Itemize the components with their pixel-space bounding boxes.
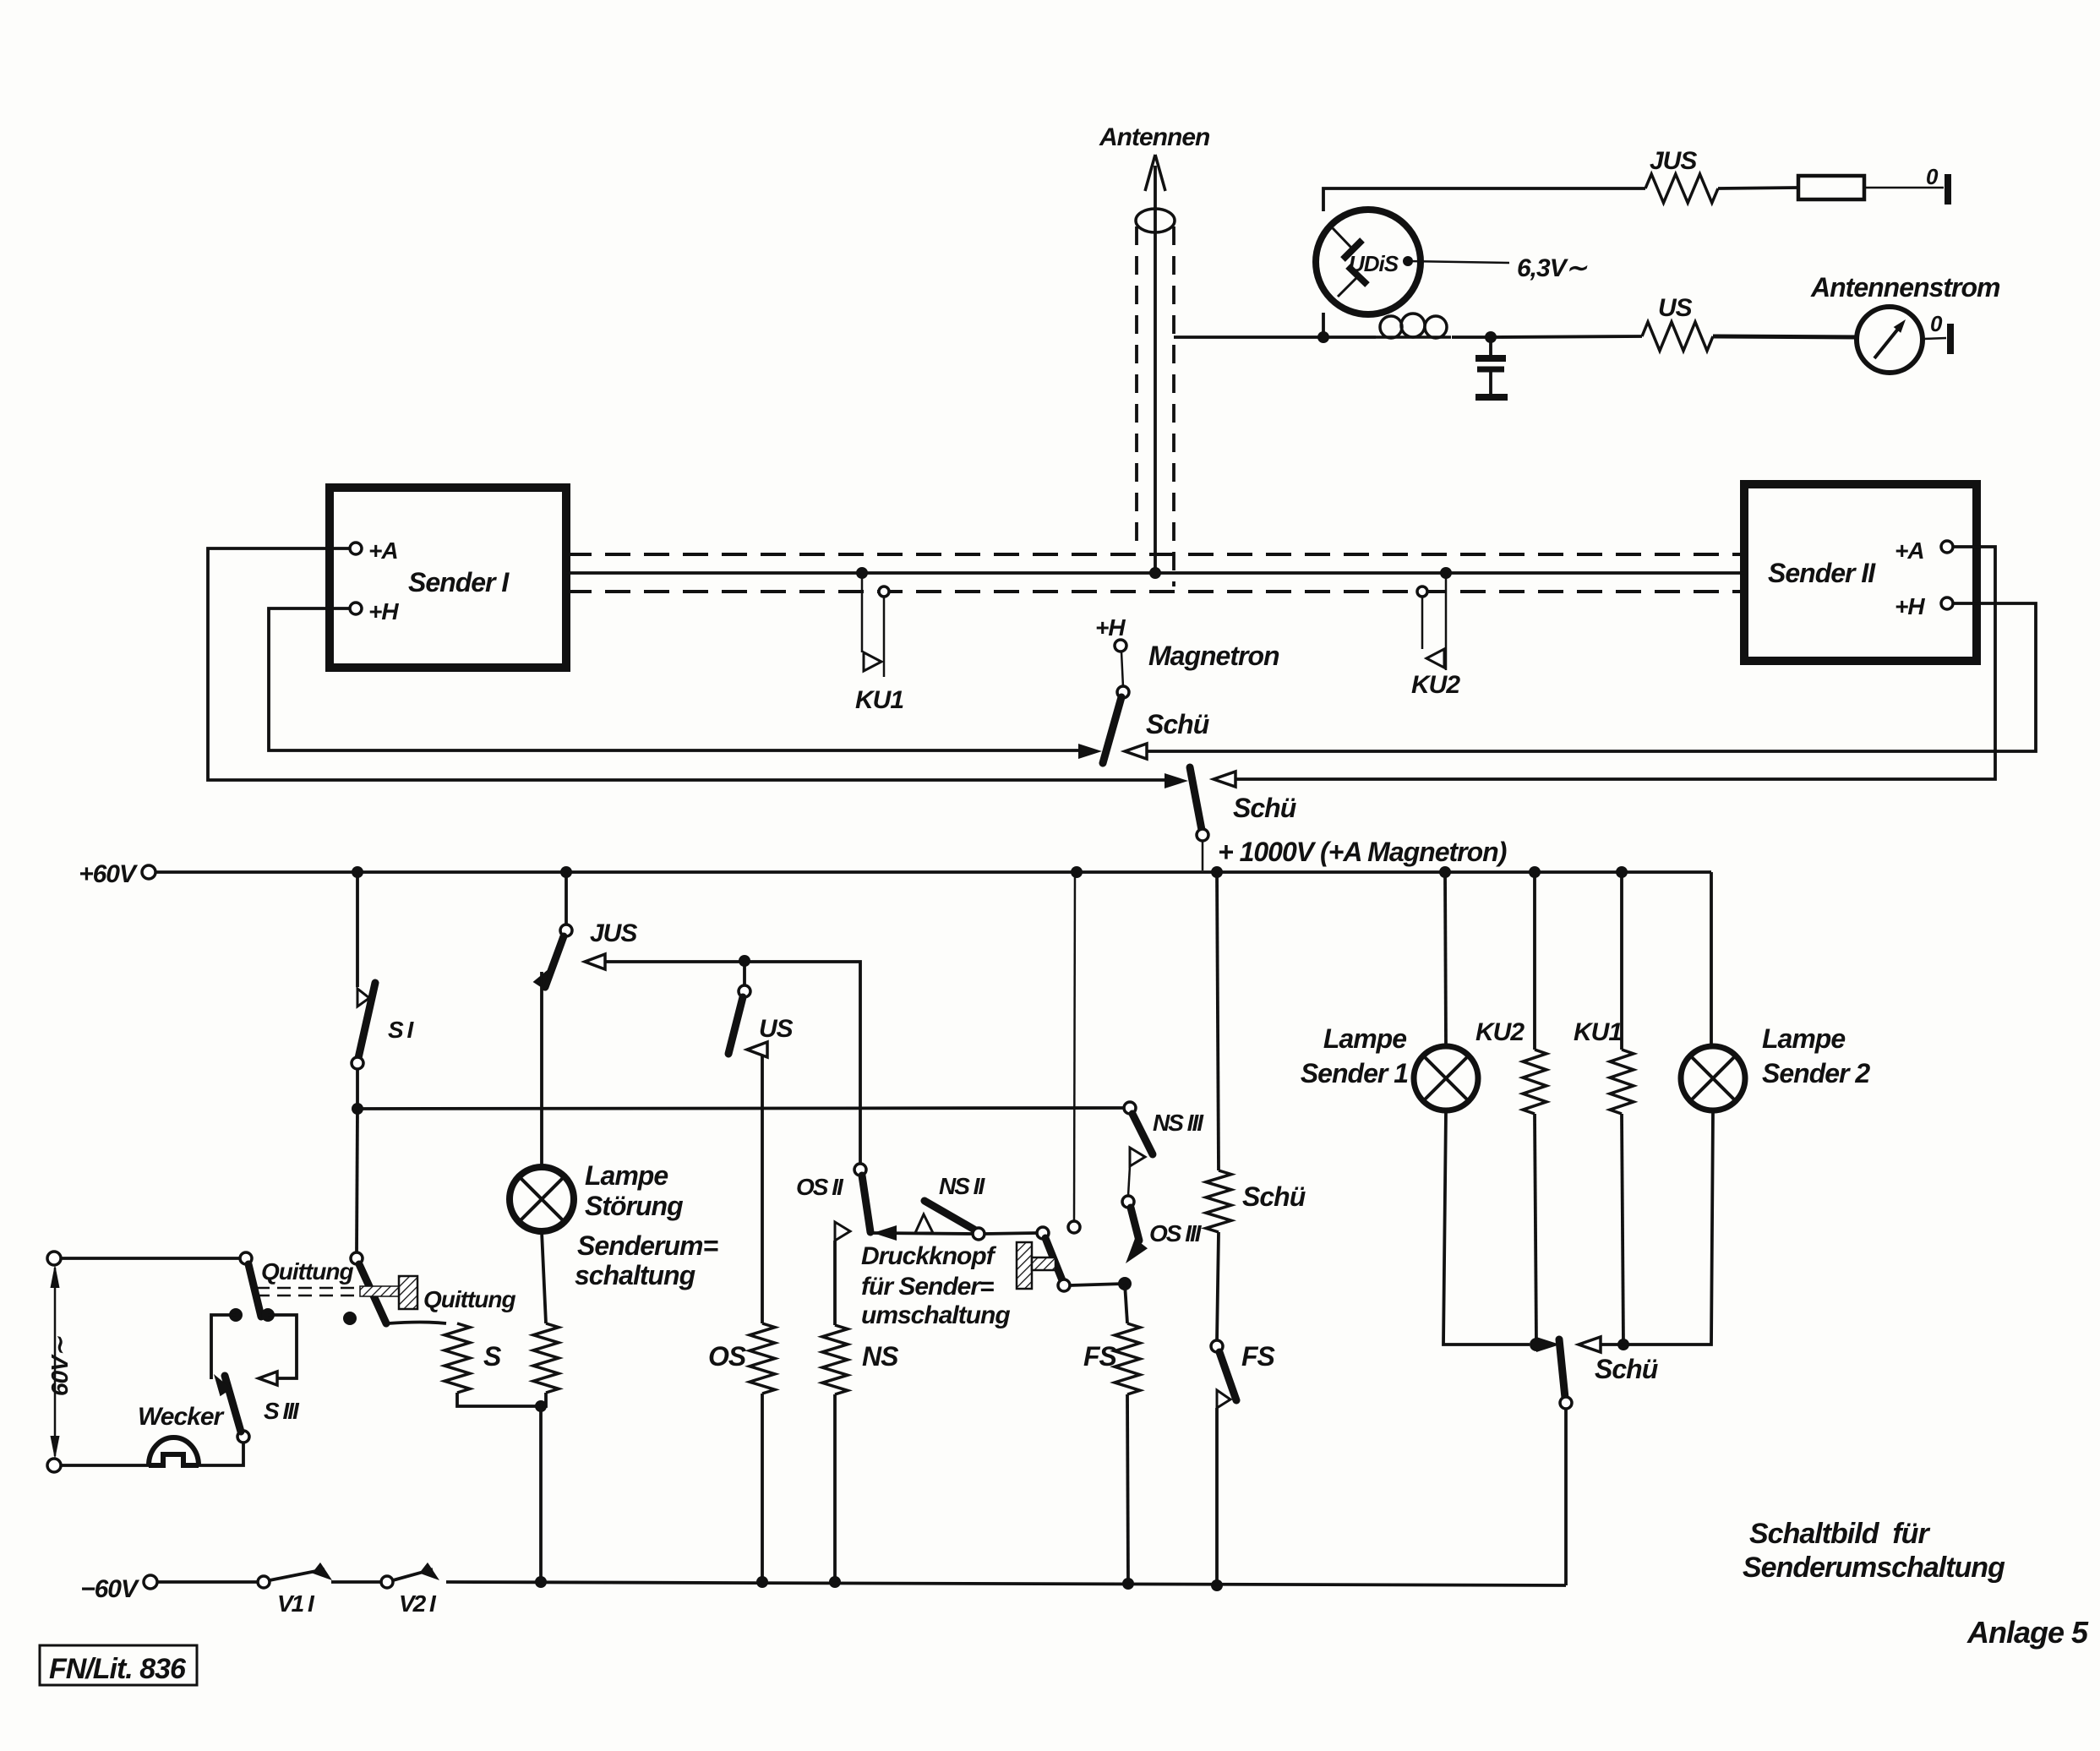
antenna feeder wire with up arrow <box>1145 155 1165 574</box>
open arrow on +H line <box>1125 744 1147 759</box>
resistor JUS <box>1645 174 1718 203</box>
switch US <box>728 961 750 1054</box>
wire -60V rail segment 3 <box>446 1582 1566 1585</box>
node capacitor junction <box>1485 331 1497 343</box>
wire lamp to resistor <box>542 1231 546 1323</box>
open arrow bottom Schue <box>1579 1337 1601 1352</box>
svg-text:Lampe: Lampe <box>1323 1023 1406 1054</box>
flag contact NS III <box>1128 1148 1145 1196</box>
open contact triangle NS II <box>915 1214 933 1233</box>
node on UDiS right <box>1403 256 1413 266</box>
wire Quittung lever to resistor S <box>388 1323 446 1324</box>
resistor S right leg <box>533 1323 559 1393</box>
svg-text:Quittung: Quittung <box>423 1286 516 1312</box>
open arrow JUS <box>585 954 605 969</box>
open arrow on +A line <box>1214 772 1235 787</box>
svg-text:0: 0 <box>1926 164 1939 189</box>
svg-text:S: S <box>483 1341 502 1372</box>
svg-text:Senderum=: Senderum= <box>577 1230 717 1261</box>
switch JUS <box>533 872 572 989</box>
node FS rail <box>1122 1578 1134 1590</box>
svg-text:NS: NS <box>862 1341 899 1372</box>
svg-text:JUS: JUS <box>590 919 637 947</box>
svg-text:Lampe: Lampe <box>585 1160 668 1191</box>
switch S III <box>214 1374 249 1443</box>
dimension 60V~ <box>46 1264 73 1459</box>
label Druckknopf fuer Senderumschaltung <box>861 1242 1010 1329</box>
wire JUS lever to lamp <box>540 972 543 1167</box>
arrow left contact to Schue lever <box>1536 1337 1560 1352</box>
node rail KU2 <box>1529 866 1541 878</box>
terminal 60V upper <box>47 1252 61 1265</box>
node US takeoff <box>739 955 750 967</box>
wire resistor to rail node <box>541 1393 546 1406</box>
mechanical link dashed <box>256 1288 360 1296</box>
pushbutton Druckknopf hatched <box>1017 1242 1055 1289</box>
terminal 0 lower <box>1923 311 1954 354</box>
svg-text:+A: +A <box>368 537 398 564</box>
svg-text:US: US <box>759 1015 794 1043</box>
svg-text:schaltung: schaltung <box>575 1260 695 1290</box>
wire capacitor node to US resistor <box>1491 336 1642 337</box>
svg-text:Anlage 5: Anlage 5 <box>1966 1615 2089 1650</box>
terminal +A Sender II <box>1895 537 1953 564</box>
node OS rail <box>756 1576 768 1588</box>
open arrow US <box>747 1042 767 1057</box>
wire S I to Quittung switch <box>357 1109 357 1252</box>
svg-text:Sender I: Sender I <box>408 567 510 597</box>
svg-text:+A: +A <box>1895 537 1924 564</box>
wire +60V rail <box>155 870 1711 874</box>
wire KU2 branch <box>1533 872 1536 1050</box>
switch Schue changeover bottom <box>1559 1339 1572 1409</box>
node S resistors join <box>535 1400 547 1412</box>
node S rail <box>535 1576 547 1588</box>
wire +A Sender I loop <box>208 548 1166 780</box>
label Lampe Stoerung <box>575 1160 717 1290</box>
svg-text:Sender 1: Sender 1 <box>1301 1058 1408 1088</box>
switch V2 I <box>381 1563 439 1588</box>
component box (relay element) <box>1798 176 1864 199</box>
svg-text:FS: FS <box>1241 1341 1276 1372</box>
resistor NS <box>822 1325 848 1394</box>
resistor FS <box>1115 1323 1140 1394</box>
svg-text:Senderumschaltung: Senderumschaltung <box>1743 1552 2005 1584</box>
svg-text:+H: +H <box>368 598 399 625</box>
wire inductor to capacitor node <box>1452 335 1491 339</box>
switch OS III <box>1122 1196 1148 1263</box>
label Lampe Sender 1 <box>1301 1023 1408 1088</box>
connector KU1 <box>856 567 889 677</box>
terminal +H Sender I <box>350 598 399 625</box>
svg-text:V2 I: V2 I <box>399 1590 437 1617</box>
svg-text:OS: OS <box>708 1341 747 1372</box>
flag contact NS <box>835 1222 850 1325</box>
resistor KU1 <box>1610 1050 1634 1114</box>
wire OS III node to FS resistor <box>1125 1284 1127 1323</box>
svg-text:FN/Lit. 836: FN/Lit. 836 <box>49 1653 187 1685</box>
capacitor to ground <box>1475 337 1508 397</box>
wire 60V lower to bell <box>60 1464 149 1467</box>
terminal 0 upper <box>1926 164 1951 205</box>
contact dot Quittung right <box>343 1312 357 1325</box>
terminal 60V lower <box>47 1459 61 1472</box>
wire JUS to box <box>1718 188 1798 188</box>
node rail Schue resistor <box>1211 866 1223 878</box>
wire cross line to NS III <box>357 1108 1124 1109</box>
svg-text:Sender 2: Sender 2 <box>1762 1058 1870 1088</box>
dashed shield wire left <box>1135 226 1138 549</box>
resistor US <box>1642 322 1713 351</box>
node FS switch rail <box>1211 1579 1223 1591</box>
bell Wecker <box>149 1437 199 1465</box>
wire S join down to -60V <box>539 1406 543 1582</box>
svg-text:Antennen: Antennen <box>1099 123 1210 151</box>
svg-text:JUS: JUS <box>1650 147 1697 175</box>
node rail push contact <box>1071 866 1083 878</box>
wire Schue resistor to FS switch <box>1217 1232 1219 1341</box>
wire lamp1 branch <box>1445 872 1446 1046</box>
wire S bottom join <box>457 1393 541 1406</box>
resistor Schue <box>1206 1170 1231 1232</box>
wire from UDiS top to JUS resistor <box>1323 188 1645 211</box>
svg-text:KU1: KU1 <box>855 686 903 714</box>
svg-text:+H: +H <box>1895 593 1925 619</box>
wire lamp2 to right contact line <box>1588 1110 1713 1345</box>
wire from UDiS bottom to antenna line <box>1322 313 1325 337</box>
svg-text:KU1: KU1 <box>1574 1018 1622 1046</box>
svg-text:US: US <box>1658 294 1693 322</box>
wire lamp2 branch <box>1710 872 1713 1046</box>
stamp FN/Lit. 836 <box>40 1645 197 1685</box>
wire bell to S III <box>199 1443 243 1465</box>
wire +A Sender II loop <box>1217 547 1995 779</box>
lamp Sender 2 <box>1681 1046 1745 1110</box>
node antenna to solid bus <box>1149 567 1161 579</box>
node rail S I <box>352 866 363 878</box>
svg-text:S I: S I <box>388 1017 414 1043</box>
svg-text:V1 I: V1 I <box>277 1590 315 1617</box>
node right contact <box>1617 1339 1629 1350</box>
lamp Sender 1 <box>1414 1046 1478 1110</box>
switch NS III <box>1124 1102 1153 1154</box>
svg-text:S III: S III <box>264 1398 300 1424</box>
dashed shield wire right <box>1172 226 1175 586</box>
wire FS to -60V <box>1127 1394 1128 1584</box>
svg-text:UDiS: UDiS <box>1349 251 1399 276</box>
switch Schue 1000V <box>1190 767 1208 870</box>
wire +H Sender I loop <box>269 608 1080 750</box>
terminal +A Sender I <box>350 537 398 564</box>
pushbutton lever <box>1037 1227 1070 1291</box>
switch V1 I <box>258 1563 332 1588</box>
wire lamp1 to Schue contact <box>1443 1110 1530 1345</box>
node rail JUS <box>560 866 572 878</box>
wire Schue to -60V rail <box>1564 1409 1568 1585</box>
dashed bus line lower <box>566 590 1744 593</box>
svg-text:OS II: OS II <box>796 1174 844 1200</box>
wire KU1 branch <box>1620 872 1623 1050</box>
switch S I <box>352 872 375 1109</box>
node rail lamp1 <box>1439 866 1451 878</box>
svg-text:+60V: +60V <box>79 860 139 888</box>
wire OS to -60V <box>761 1394 764 1582</box>
svg-text:umschaltung: umschaltung <box>861 1301 1010 1329</box>
wire box to terminal 0 <box>1864 187 1944 189</box>
svg-text:Schü: Schü <box>1233 793 1296 823</box>
wire KU1 to right contact line <box>1622 1114 1623 1345</box>
svg-text:Schü: Schü <box>1595 1354 1658 1384</box>
contact circle pushbutton line <box>1068 872 1080 1233</box>
wire KU2 to Schue contact <box>1535 1114 1536 1345</box>
svg-text:Schü: Schü <box>1146 709 1209 739</box>
svg-text:Lampe: Lampe <box>1762 1023 1845 1054</box>
switch NS II <box>925 1201 985 1240</box>
wire +H Sender II loop <box>1128 603 2036 751</box>
svg-text:Störung: Störung <box>585 1191 683 1221</box>
svg-text:+H: +H <box>1095 614 1126 641</box>
wire NS II to pushbutton lever <box>985 1233 1037 1234</box>
wire US to meter <box>1713 336 1857 337</box>
solid bus line <box>566 571 1744 575</box>
box Sender I <box>330 488 566 668</box>
svg-text:Sender II: Sender II <box>1768 558 1876 588</box>
arrow +A line to Schue switch <box>1165 773 1188 788</box>
node Schue left contact <box>1530 1338 1543 1351</box>
switch Quittung right <box>351 1252 386 1323</box>
wire 60V to Quittung switch <box>60 1257 240 1260</box>
svg-text:6,3V∼: 6,3V∼ <box>1517 254 1588 282</box>
label Lampe Sender 2 <box>1762 1023 1870 1088</box>
resistor KU2 <box>1523 1050 1546 1114</box>
wire NS to -60V <box>833 1394 837 1582</box>
wire NS II contact line <box>873 1233 973 1234</box>
svg-text:OS III: OS III <box>1149 1220 1203 1246</box>
title Schaltbild <box>1743 1518 2005 1584</box>
svg-text:60V∼: 60V∼ <box>46 1335 73 1396</box>
node S I lower <box>352 1103 363 1115</box>
svg-text:KU2: KU2 <box>1411 671 1460 699</box>
wire rail to Schue resistor <box>1217 872 1219 1170</box>
wire JUS contact line <box>585 962 860 1165</box>
svg-text:KU2: KU2 <box>1475 1018 1525 1046</box>
contact bracket <box>211 1315 297 1379</box>
connector KU2 <box>1417 567 1452 670</box>
svg-text:0: 0 <box>1930 311 1943 336</box>
node UDiS bottom junction <box>1317 331 1329 343</box>
svg-text:NS II: NS II <box>939 1173 985 1199</box>
dashed bus line upper <box>566 553 1744 556</box>
switch Quittung left <box>240 1252 261 1317</box>
svg-text:Quittung: Quittung <box>261 1258 354 1285</box>
resistor OS <box>750 1323 775 1394</box>
svg-text:für Sender=: für Sender= <box>861 1273 994 1301</box>
arrow NS II line to OS II <box>873 1225 897 1241</box>
svg-text:Wecker: Wecker <box>138 1403 226 1431</box>
lamp Stoerung <box>510 1167 574 1231</box>
box Sender II <box>1744 484 1977 661</box>
contact dots Quittung left <box>229 1308 275 1322</box>
wire -60V rail segment 1 <box>156 1580 259 1584</box>
wire US contact to OS resistor <box>747 1050 762 1323</box>
meter Antennenstrom <box>1857 307 1923 373</box>
node rail KU1 <box>1616 866 1628 878</box>
svg-text:NS III: NS III <box>1153 1110 1204 1136</box>
antenna coupling ellipse <box>1136 209 1175 232</box>
terminal -60V <box>144 1575 157 1589</box>
node NS rail <box>829 1576 841 1588</box>
open arrow bracket <box>259 1372 277 1385</box>
inductor L <box>1376 314 1451 338</box>
switch FS <box>1211 1340 1236 1585</box>
coil Quittung hatched box <box>399 1276 417 1309</box>
switch OS II <box>854 1164 870 1232</box>
terminal +60V <box>142 865 155 879</box>
indicator tube UDiS <box>1316 210 1421 314</box>
wire to 6,3V label <box>1408 261 1509 263</box>
svg-text:Schü: Schü <box>1242 1181 1306 1212</box>
svg-text:Magnetron: Magnetron <box>1148 641 1279 671</box>
terminal +H Sender II <box>1895 593 1953 619</box>
svg-text:Antennenstrom: Antennenstrom <box>1810 272 2000 303</box>
switch Schue magnetron <box>1103 640 1129 763</box>
svg-text:Schaltbild für: Schaltbild für <box>1749 1518 1930 1550</box>
wire -60V rail segment 2 <box>331 1580 382 1584</box>
resistor S <box>445 1323 470 1393</box>
arrow +H line to Magnetron switch <box>1078 744 1102 759</box>
svg-text:FS: FS <box>1083 1341 1118 1372</box>
node OS III <box>1118 1277 1132 1290</box>
svg-text:+ 1000V (+A Magnetron): + 1000V (+A Magnetron) <box>1218 837 1507 867</box>
wire pushbutton to OS III node <box>1070 1284 1125 1285</box>
svg-text:−60V: −60V <box>80 1575 140 1603</box>
wire antenna current line <box>1174 335 1376 339</box>
svg-text:Druckknopf: Druckknopf <box>861 1242 997 1270</box>
hatched link bar <box>360 1286 399 1296</box>
